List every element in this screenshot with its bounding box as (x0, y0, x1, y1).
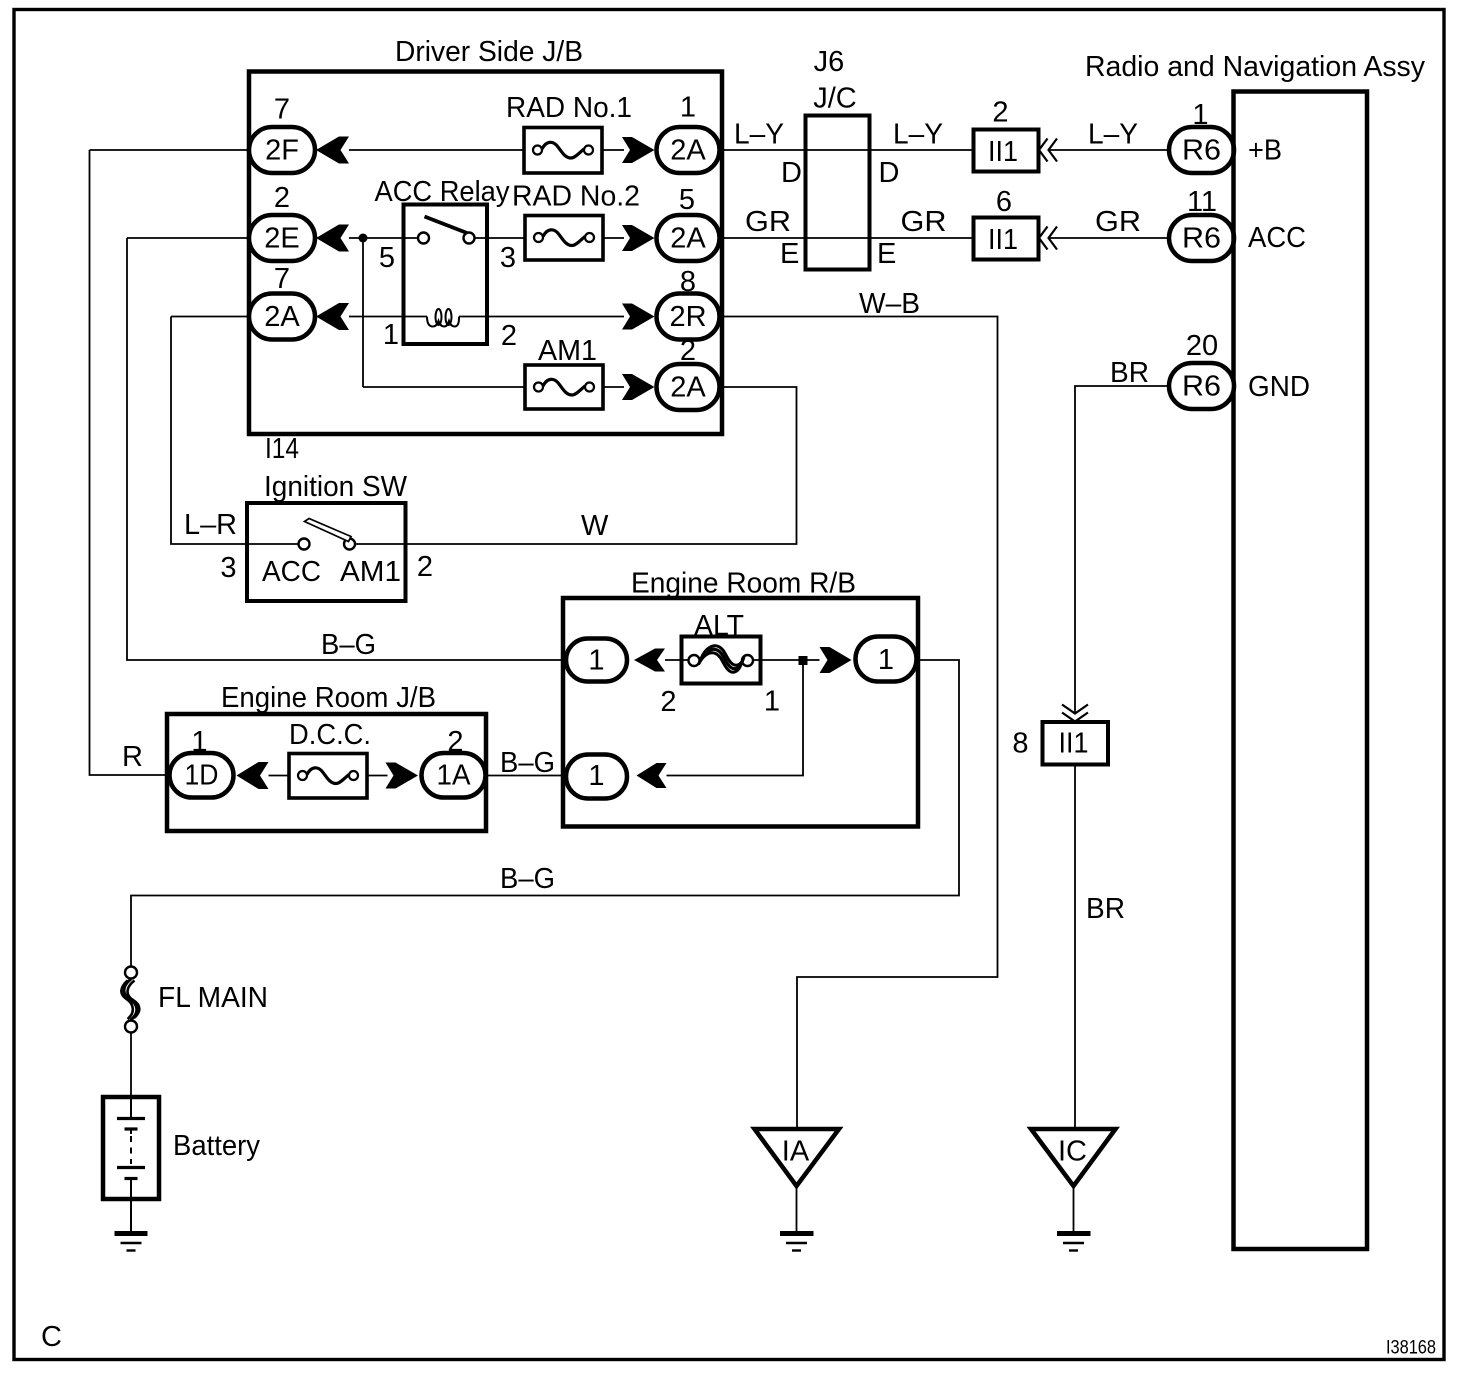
svg-text:L–Y: L–Y (1088, 119, 1138, 151)
svg-text:BR: BR (1110, 357, 1149, 389)
svg-text:II1: II1 (988, 224, 1018, 256)
wire row3 (coil to arrow) (459, 316, 624, 318)
arrow into 2A row1 (622, 137, 655, 163)
svg-text:2: 2 (992, 97, 1008, 129)
wire (D.C.C. to arrow) (367, 775, 388, 777)
ground (IA) (780, 1234, 814, 1251)
ignition wire inside right (355, 543, 406, 545)
arrow into 1A (386, 763, 419, 789)
svg-text:E: E (877, 238, 896, 270)
connector 1 (R/B upper left) (566, 639, 627, 682)
relay switch blade (425, 217, 468, 234)
arrow into 2A row4 (622, 374, 655, 400)
svg-text:1: 1 (588, 645, 604, 677)
connector R6 (GND) (1169, 363, 1234, 409)
wire B-G vertical to Engine Room R/B (127, 238, 566, 660)
wire row1 (chevron to R6) (1049, 149, 1169, 151)
connector 1D (170, 753, 234, 798)
svg-text:GR: GR (745, 206, 791, 238)
svg-text:L–Y: L–Y (734, 119, 784, 151)
svg-text:Ignition SW: Ignition SW (264, 471, 408, 503)
svg-text:IC: IC (1058, 1136, 1087, 1168)
connector 2A row2 (657, 215, 720, 261)
svg-text:2: 2 (660, 686, 676, 718)
svg-text:W: W (581, 510, 609, 542)
fuse D.C.C. (289, 754, 367, 799)
chevrons II1 row2 (1039, 227, 1057, 250)
svg-text:W–B: W–B (859, 288, 920, 320)
wire row2 right (2A to J6 to II1) (720, 237, 976, 239)
svg-text:L–R: L–R (184, 509, 237, 541)
svg-text:+B: +B (1248, 135, 1282, 167)
wire row2 (fuse to arrow) (603, 237, 624, 239)
wire row2 left exit (2E to B-G vertical) (127, 237, 249, 239)
svg-text:I38168: I38168 (1386, 1338, 1436, 1359)
connector 2F (249, 127, 315, 173)
arrow at 2A row3 (316, 303, 349, 330)
svg-text:J6: J6 (814, 46, 845, 78)
Driver Side J/B box (249, 72, 722, 435)
svg-text:1: 1 (383, 319, 399, 351)
connector 2R (657, 294, 720, 340)
fuse RAD No.1 (524, 128, 602, 174)
svg-text:2R: 2R (669, 301, 706, 333)
ignition contact AM1 (344, 539, 355, 550)
svg-text:II1: II1 (1059, 728, 1089, 760)
Engine Room R/B box (563, 598, 918, 827)
wire W-B from 2R to IA ground (720, 317, 998, 1130)
svg-text:Engine Room J/B: Engine Room J/B (221, 682, 436, 714)
chevrons II1 (8) (1062, 705, 1088, 722)
ground triangle IA (755, 1129, 840, 1186)
svg-text:IA: IA (782, 1136, 810, 1168)
arrow at 2F (316, 137, 349, 164)
svg-text:Driver Side J/B: Driver Side J/B (395, 36, 583, 68)
svg-text:2F: 2F (265, 135, 299, 167)
node junction dot (359, 234, 368, 243)
fuse ALT (682, 637, 761, 684)
wire row1 right (2A to J6 to II1) (720, 149, 976, 151)
svg-text:2A: 2A (670, 372, 706, 404)
svg-text:2: 2 (417, 551, 433, 583)
connector 1 (R/B upper right) (856, 637, 917, 682)
arrow at 2E (316, 225, 349, 252)
svg-text:D: D (781, 157, 802, 189)
wire row1 left exit (2F to R vertical) (90, 149, 250, 151)
wire row3 (arrow to relay coil) (349, 316, 427, 318)
svg-text:R6: R6 (1182, 223, 1221, 255)
arrow at R/B lower (637, 763, 667, 788)
Engine Room J/B box (167, 714, 486, 831)
svg-text:2E: 2E (264, 223, 299, 255)
svg-text:8: 8 (1012, 728, 1028, 760)
wire junction down to lower row (667, 665, 804, 776)
svg-text:R: R (122, 741, 143, 773)
svg-text:7: 7 (274, 94, 290, 126)
wire row4 (fuse to arrow) (603, 386, 624, 388)
arrow into R/B upper right (820, 647, 852, 673)
wire (arrow to D.C.C.) (269, 775, 290, 777)
connector R6 (+B) (1169, 127, 1234, 173)
chevrons II1 row1 (1039, 139, 1057, 162)
svg-text:1: 1 (588, 760, 604, 792)
svg-text:1: 1 (764, 686, 780, 718)
svg-text:J/C: J/C (813, 83, 857, 115)
svg-text:1: 1 (680, 92, 696, 124)
svg-text:AM1: AM1 (538, 335, 597, 367)
svg-text:RAD No.2: RAD No.2 (512, 181, 640, 213)
wire row2 (chevron to R6) (1049, 237, 1169, 239)
arrow at 1D (237, 762, 269, 789)
svg-text:R6: R6 (1182, 135, 1221, 167)
wire junction vertical to AM1 row (362, 238, 364, 387)
wire row4 (junction to AM1 fuse) (363, 386, 525, 388)
svg-text:GND: GND (1248, 371, 1310, 403)
arrow into 2A row2 (622, 225, 655, 251)
ignition wire inside left (247, 543, 299, 545)
ground (IC) (1057, 1234, 1091, 1251)
svg-text:1D: 1D (185, 760, 219, 792)
svg-text:AM1: AM1 (340, 556, 401, 588)
svg-text:3: 3 (220, 552, 236, 584)
wire BR (II1 to IC ground) (1074, 765, 1076, 1130)
svg-text:5: 5 (379, 242, 395, 274)
svg-text:2A: 2A (670, 223, 706, 255)
Radio and Navigation Assy box (1234, 92, 1368, 1250)
svg-text:FL MAIN: FL MAIN (158, 982, 268, 1014)
connector 1A (422, 753, 486, 798)
connector 2A row4 (657, 364, 720, 410)
connector 2A row3 (249, 294, 315, 340)
battery (103, 1097, 159, 1199)
svg-text:E: E (780, 238, 799, 270)
ground (battery) (115, 1234, 148, 1251)
wire row3 left exit (2A to L-R vertical) (171, 316, 249, 318)
svg-text:ACC: ACC (1248, 222, 1306, 254)
wire B-G (1A to R/B lower) (486, 775, 567, 777)
wire row1 (2F arrow to RAD No.1) (349, 149, 524, 151)
svg-text:II1: II1 (988, 136, 1018, 168)
Ignition SW box (247, 503, 406, 601)
wire (ALT to junction) (753, 659, 820, 661)
connector 2E (249, 215, 315, 261)
svg-text:1A: 1A (437, 760, 472, 792)
svg-text:Engine Room R/B: Engine Room R/B (631, 568, 856, 600)
relay ACC box (404, 205, 488, 345)
relay coil (427, 309, 459, 327)
svg-text:GR: GR (901, 206, 947, 238)
wire (FL MAIN to battery) (130, 1033, 132, 1098)
wire W from 2A row4 to Ignition SW AM1 (406, 387, 797, 544)
svg-text:B–G: B–G (321, 629, 376, 661)
wire (arrow to ALT fuse) (665, 659, 688, 661)
fusible link FL MAIN (121, 967, 139, 1033)
wire L-R vertical to Ignition SW (171, 317, 247, 545)
svg-text:3: 3 (500, 242, 516, 274)
wire BR (GND to II1 8) (1075, 386, 1169, 712)
svg-text:Radio and Navigation Assy: Radio and Navigation Assy (1085, 51, 1425, 83)
connector 1 (R/B lower) (566, 755, 627, 799)
svg-text:R6: R6 (1182, 371, 1221, 403)
wire (battery to ground) (130, 1199, 132, 1232)
fuse AM1 (525, 365, 603, 409)
svg-text:2: 2 (501, 320, 517, 352)
wire B-G right exit down (131, 660, 959, 967)
svg-text:2: 2 (274, 182, 290, 214)
wire (IC to ground) (1073, 1186, 1075, 1232)
svg-text:BR: BR (1086, 893, 1125, 925)
svg-text:I14: I14 (265, 433, 299, 465)
ignition contact ACC (299, 539, 310, 550)
connector 2A row1 (657, 127, 720, 173)
connector II1 (row1) (974, 130, 1039, 172)
connector II1 (8) (1043, 722, 1109, 765)
wire row2 (relay to RAD No.2) (475, 237, 526, 239)
svg-text:5: 5 (679, 184, 695, 216)
ignition switch blade (305, 519, 352, 542)
svg-text:2A: 2A (264, 301, 300, 333)
svg-text:7: 7 (274, 263, 290, 295)
svg-text:GR: GR (1095, 206, 1141, 238)
svg-text:D: D (879, 157, 900, 189)
svg-text:D.C.C.: D.C.C. (289, 719, 371, 751)
connector R6 (ACC) (1169, 215, 1234, 261)
junction connector J6 J/C (806, 116, 870, 270)
connector II1 (row2) (974, 218, 1039, 260)
svg-text:B–G: B–G (500, 747, 555, 779)
wire row2 (2E arrow to relay) (349, 237, 418, 239)
svg-text:20: 20 (1186, 330, 1218, 362)
svg-text:RAD No.1: RAD No.1 (506, 92, 632, 124)
svg-text:1: 1 (878, 644, 894, 676)
svg-text:L–Y: L–Y (893, 119, 943, 151)
wire row1 (fuse to arrow) (602, 149, 624, 151)
node junction square (799, 656, 808, 665)
ground triangle IC (1031, 1129, 1116, 1186)
relay switch contact right (464, 233, 475, 244)
svg-text:2A: 2A (670, 135, 706, 167)
svg-text:ACC: ACC (262, 556, 321, 588)
svg-text:C: C (41, 1321, 62, 1353)
wire R vertical (90, 150, 170, 775)
relay switch contact left (418, 233, 429, 244)
svg-text:Battery: Battery (173, 1130, 260, 1162)
arrow at R/B upper left (634, 649, 665, 672)
arrow into 2R (622, 304, 655, 330)
svg-text:B–G: B–G (500, 863, 555, 895)
wire (IA to ground) (796, 1186, 798, 1232)
fuse RAD No.2 (525, 216, 603, 261)
svg-text:6: 6 (996, 186, 1012, 218)
